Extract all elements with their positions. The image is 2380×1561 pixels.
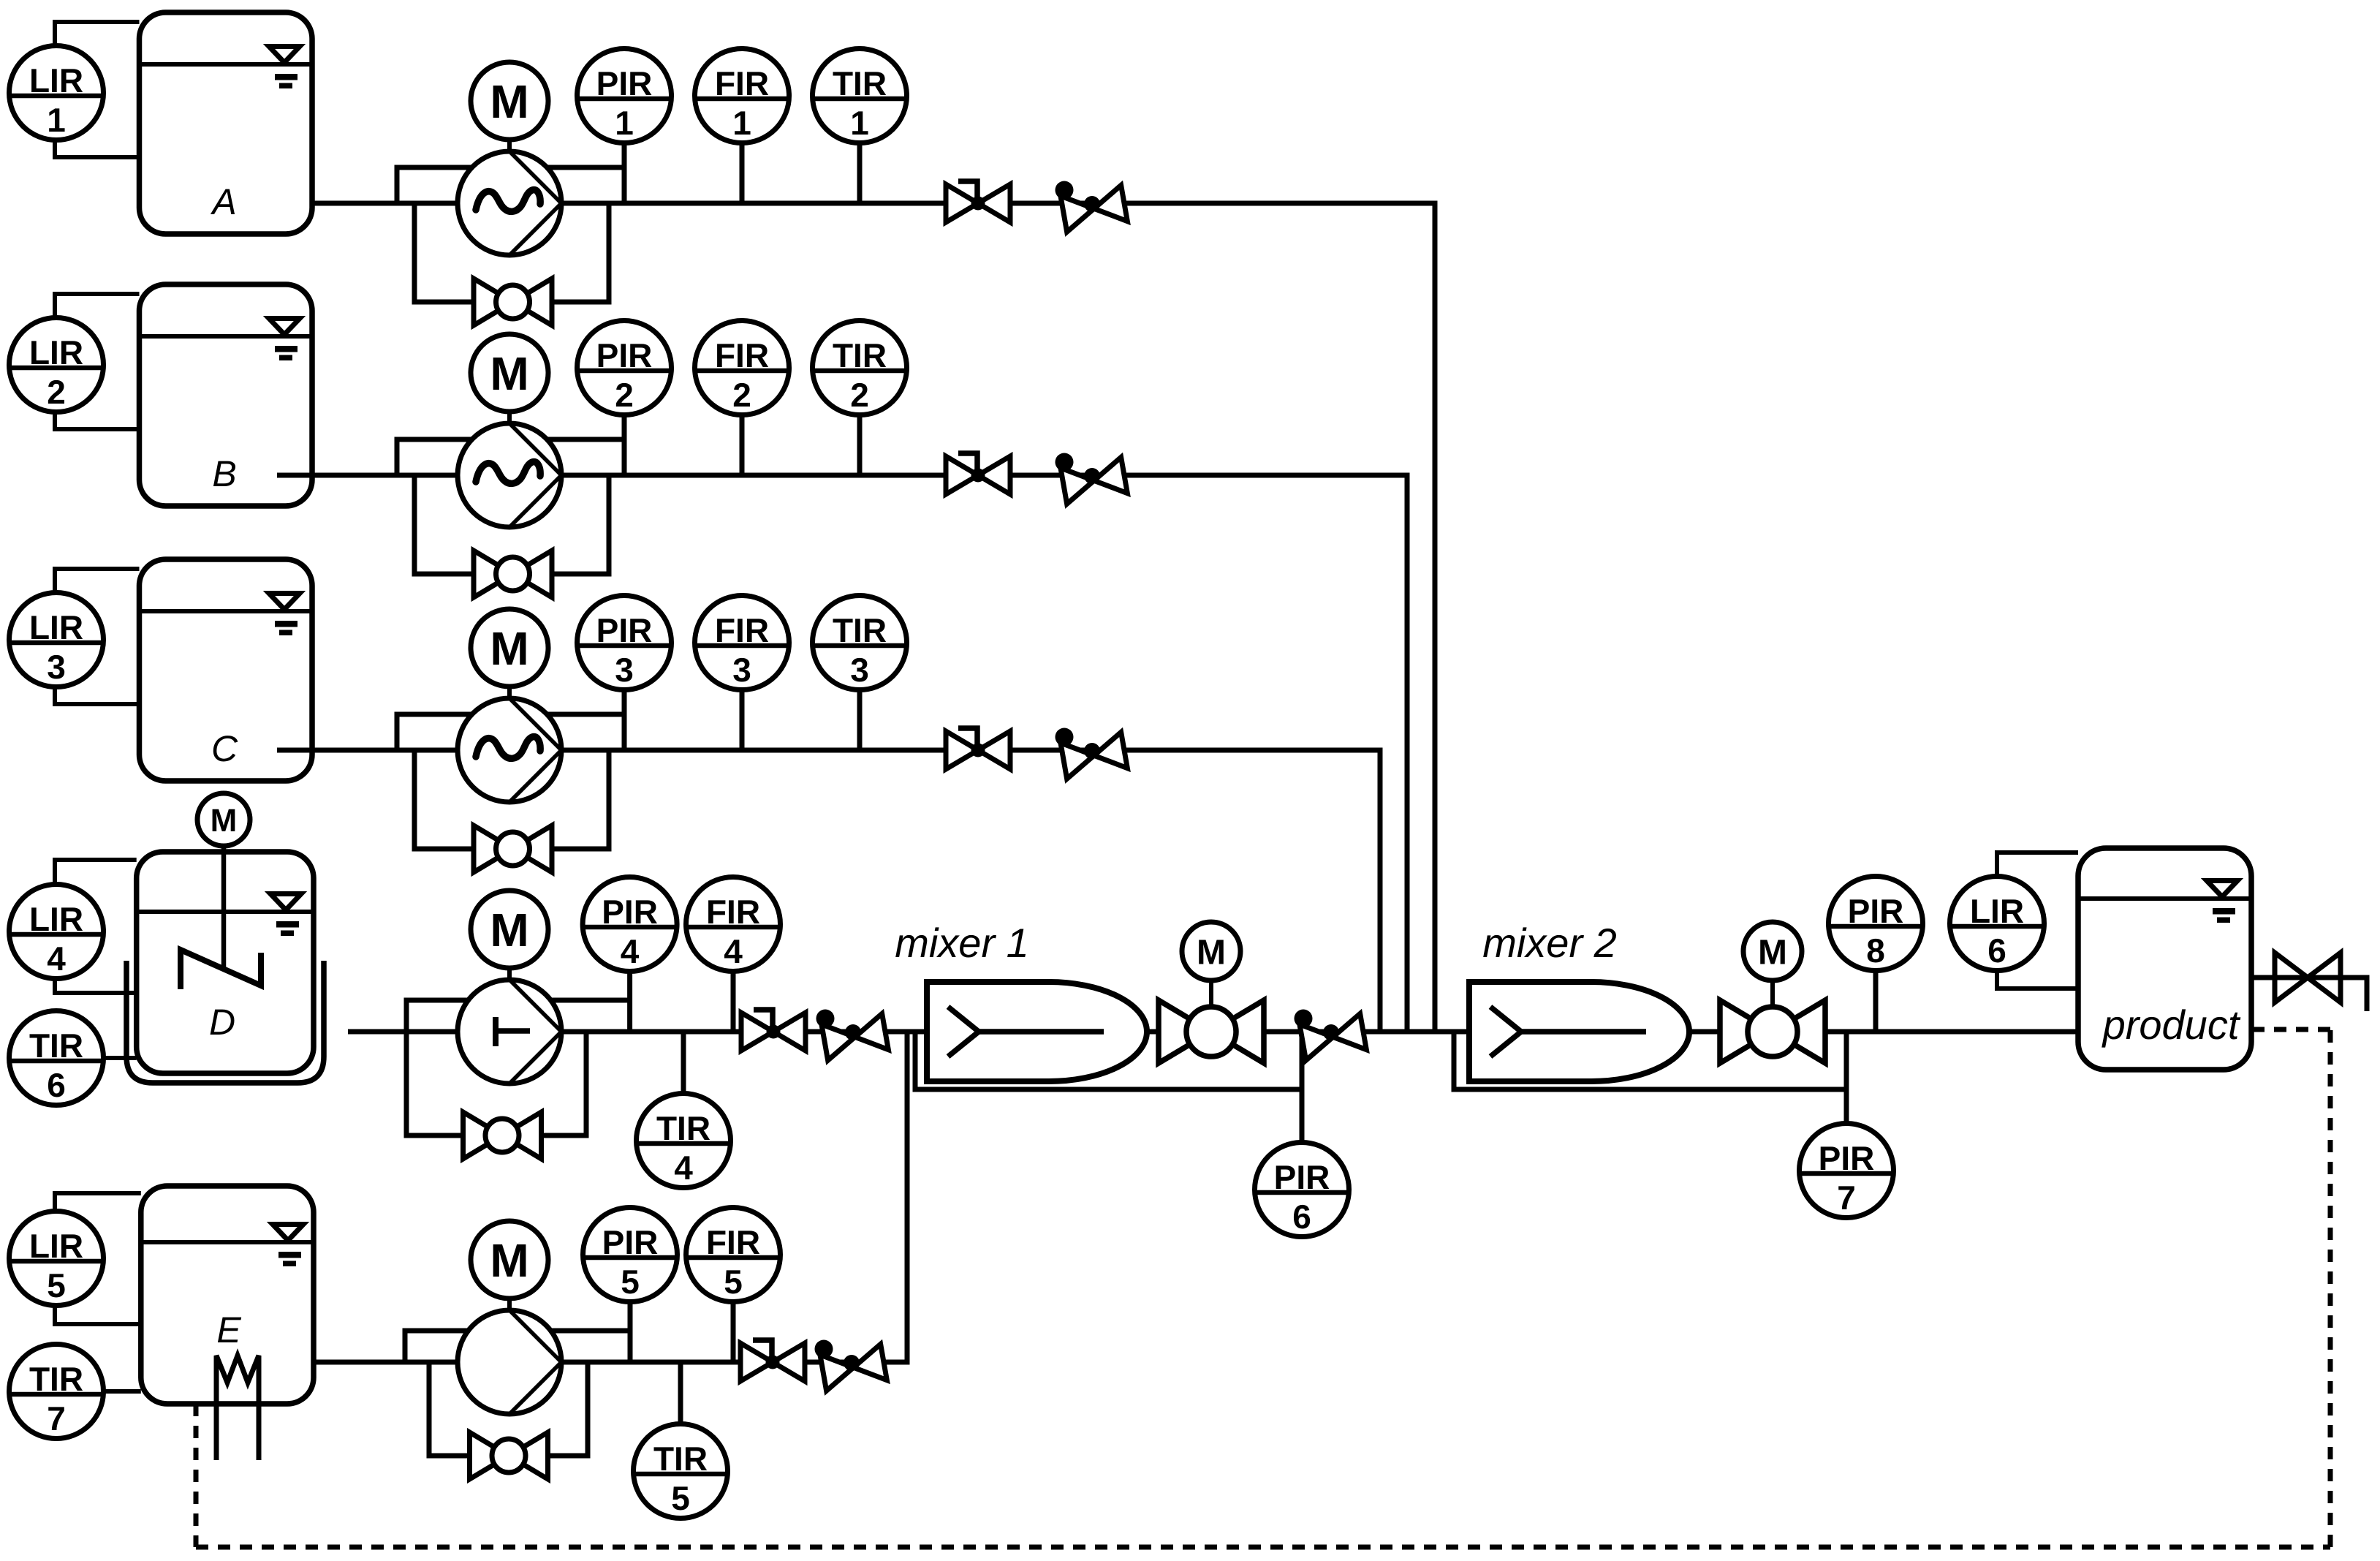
liquid level line tank B xyxy=(140,334,313,339)
motor M1 xyxy=(471,62,548,140)
instrument PIR-5 xyxy=(583,1208,678,1302)
signal line TIR-7 xyxy=(104,1389,141,1394)
svg-text:LIR: LIR xyxy=(29,608,83,646)
signal bracket LIR-5 xyxy=(55,1193,141,1324)
svg-text:TIR: TIR xyxy=(833,336,887,374)
shaft motor M1 xyxy=(507,135,512,151)
instrument PIR-8 xyxy=(1829,877,1923,971)
stirrer shaft tank D xyxy=(221,846,227,971)
motor M2 xyxy=(471,334,548,412)
instrument FIR-1 xyxy=(695,49,789,143)
instrument LIR-5 xyxy=(10,1212,104,1306)
label D xyxy=(209,1002,235,1043)
level mark product tank xyxy=(2207,881,2237,923)
svg-text:PIR: PIR xyxy=(596,64,653,102)
instrument TIR-2 xyxy=(813,321,907,415)
svg-text:5: 5 xyxy=(621,1263,640,1301)
svg-text:PIR: PIR xyxy=(1819,1139,1875,1177)
svg-text:M: M xyxy=(1197,933,1226,972)
svg-text:FIR: FIR xyxy=(715,64,769,102)
svg-text:PIR: PIR xyxy=(1274,1158,1330,1196)
svg-text:A: A xyxy=(210,181,236,222)
svg-text:M: M xyxy=(490,75,528,128)
valve V4a (hand gate valve) xyxy=(741,1010,806,1051)
shaft motor M5 xyxy=(507,1299,512,1310)
valve bypass 3 (bypass globe valve) xyxy=(474,825,552,872)
signal line TIR-6 xyxy=(104,1056,137,1060)
signal line TIR-5 xyxy=(678,1362,683,1424)
pump P5 xyxy=(458,1310,561,1414)
svg-text:2: 2 xyxy=(850,376,869,414)
valve V5b (ball-head valve) xyxy=(815,1340,887,1391)
pipe bypass lower pump 2 xyxy=(414,475,609,574)
svg-text:product: product xyxy=(2102,1002,2241,1048)
control valve MV1 xyxy=(1159,980,1264,1063)
signal bracket LIR-6 xyxy=(1997,853,2078,989)
valve bypass 1 (bypass globe valve) xyxy=(474,279,552,325)
svg-text:C: C xyxy=(211,728,238,769)
svg-text:FIR: FIR xyxy=(715,611,769,649)
signal line PIR-8 xyxy=(1873,971,1879,1032)
instrument LIR-6 xyxy=(1950,877,2044,971)
signal line PIR-4 xyxy=(627,972,632,1032)
svg-text:1: 1 xyxy=(732,104,751,142)
svg-text:6: 6 xyxy=(47,1066,66,1104)
liquid level line tank A xyxy=(140,62,313,67)
valve V5a (hand gate valve) xyxy=(740,1340,805,1381)
svg-text:4: 4 xyxy=(621,932,640,970)
instrument TIR-3 xyxy=(813,596,907,690)
svg-text:M: M xyxy=(211,803,238,839)
svg-text:TIR: TIR xyxy=(833,611,887,649)
mixer 1 body xyxy=(927,982,1147,1081)
pipe bypass lower pump 5 xyxy=(429,1362,588,1456)
svg-text:4: 4 xyxy=(47,940,66,978)
motor M-MV2 xyxy=(1743,922,1802,980)
tank C xyxy=(140,559,313,781)
pipe jacket loop mixer 2 xyxy=(1454,1032,1846,1089)
pipe bypass upper pump 1 xyxy=(397,167,624,203)
pipe bypass upper pump 5 xyxy=(405,1331,630,1362)
shaft motor M3 xyxy=(507,682,512,698)
svg-text:TIR: TIR xyxy=(656,1109,710,1147)
svg-text:1: 1 xyxy=(850,104,869,142)
pipe mixer 1 to mixer 2 to product tank xyxy=(1147,1029,2078,1035)
level mark tank A xyxy=(269,47,300,89)
mixer 1 symbol xyxy=(948,1007,1104,1057)
svg-text:TIR: TIR xyxy=(833,64,887,102)
svg-text:M: M xyxy=(1758,933,1787,972)
instrument LIR-2 xyxy=(10,318,104,412)
svg-text:PIR: PIR xyxy=(1848,892,1904,930)
pipe feed B to mixer 2 xyxy=(277,475,1407,1032)
svg-text:D: D xyxy=(209,1002,235,1043)
label mixer 2 xyxy=(1482,920,1617,966)
tank D jacket xyxy=(126,961,324,1083)
svg-text:LIR: LIR xyxy=(29,333,83,371)
svg-text:LIR: LIR xyxy=(29,1227,83,1265)
label E xyxy=(216,1309,241,1350)
instrument PIR-1 xyxy=(577,49,672,143)
instrument TIR-4 xyxy=(637,1094,731,1188)
tank B xyxy=(140,284,313,506)
level mark tank B xyxy=(269,319,300,361)
level mark tank E xyxy=(273,1225,303,1267)
instrument PIR-4 xyxy=(583,877,677,972)
valve V3a (hand gate valve) xyxy=(946,728,1010,769)
svg-text:FIR: FIR xyxy=(706,1223,760,1261)
control valve MV2 xyxy=(1720,980,1825,1063)
pipe jacket loop mixer 1 xyxy=(915,1032,1302,1089)
instrument TIR-5 xyxy=(634,1424,728,1519)
svg-text:FIR: FIR xyxy=(706,893,760,931)
instrument PIR-2 xyxy=(577,321,672,415)
instrument LIR-3 xyxy=(10,593,104,687)
svg-text:5: 5 xyxy=(671,1479,690,1517)
shaft motor M4 xyxy=(507,968,512,980)
svg-text:LIR: LIR xyxy=(1970,892,2024,930)
signal bracket LIR-3 xyxy=(55,569,140,704)
signal bracket LIR-1 xyxy=(55,22,140,157)
instrument PIR-7 xyxy=(1800,1124,1894,1218)
svg-text:5: 5 xyxy=(724,1263,743,1301)
svg-text:PIR: PIR xyxy=(602,1223,659,1261)
signal bracket LIR-2 xyxy=(55,294,140,429)
tank A xyxy=(140,12,313,234)
label mixer 1 xyxy=(895,920,1029,966)
svg-text:FIR: FIR xyxy=(715,336,769,374)
instrument FIR-4 xyxy=(686,877,781,972)
shaft motor M2 xyxy=(507,407,512,423)
svg-text:3: 3 xyxy=(615,651,634,689)
valve bypass 4 (bypass globe valve) xyxy=(463,1112,542,1159)
pump P3 xyxy=(458,698,561,802)
svg-text:E: E xyxy=(216,1309,241,1350)
pipe bypass lower pump 4 xyxy=(406,1032,586,1135)
svg-text:B: B xyxy=(212,453,236,494)
svg-text:TIR: TIR xyxy=(29,1027,83,1065)
signal line PIR-2 xyxy=(622,415,627,476)
signal line PIR-6 xyxy=(1300,1032,1305,1143)
signal line TIR-4 xyxy=(681,1032,686,1094)
mixer 2 body xyxy=(1469,982,1689,1081)
valve bypass 5 (bypass globe valve) xyxy=(470,1432,548,1479)
signal line TIR-3 xyxy=(857,690,863,751)
pipe product outlet xyxy=(2251,978,2367,1011)
svg-text:mixer 1: mixer 1 xyxy=(895,920,1029,966)
instrument FIR-5 xyxy=(686,1208,781,1302)
svg-text:PIR: PIR xyxy=(596,611,653,649)
svg-text:M: M xyxy=(490,347,528,400)
svg-text:3: 3 xyxy=(850,651,869,689)
signal line PIR-7 xyxy=(1844,1032,1849,1125)
liquid level line tank C xyxy=(140,609,313,613)
svg-text:3: 3 xyxy=(732,651,751,689)
signal line PIR-1 xyxy=(622,143,627,204)
svg-text:4: 4 xyxy=(674,1149,693,1187)
signal line FIR-2 xyxy=(740,415,745,476)
liquid level line tank E xyxy=(141,1240,314,1244)
valve V1a (hand gate valve) xyxy=(946,181,1010,222)
instrument TIR-6 xyxy=(10,1011,104,1105)
signal line PIR-3 xyxy=(622,690,627,751)
valve V7 (product outlet) xyxy=(2275,953,2341,1002)
label C xyxy=(211,728,238,769)
svg-text:1: 1 xyxy=(615,104,634,142)
svg-text:LIR: LIR xyxy=(29,900,83,938)
level mark tank D xyxy=(270,894,301,937)
label product xyxy=(2102,1002,2241,1048)
svg-text:PIR: PIR xyxy=(596,336,653,374)
label A xyxy=(210,181,236,222)
svg-text:TIR: TIR xyxy=(29,1360,83,1398)
stirrer paddle tank D xyxy=(181,950,261,989)
liquid level line tank D xyxy=(137,910,314,914)
tank E xyxy=(141,1186,314,1404)
motor M4 xyxy=(471,891,548,968)
instrument PIR-3 xyxy=(577,596,672,690)
svg-text:2: 2 xyxy=(47,373,66,411)
svg-text:5: 5 xyxy=(47,1266,66,1304)
svg-text:8: 8 xyxy=(1866,931,1885,970)
svg-text:M: M xyxy=(490,1234,528,1287)
signal line TIR-2 xyxy=(857,415,863,476)
pipe feed A to mixer 2 xyxy=(312,203,1435,1032)
level mark tank C xyxy=(269,594,300,636)
tank product xyxy=(2078,848,2251,1070)
svg-text:2: 2 xyxy=(732,376,751,414)
svg-text:6: 6 xyxy=(1987,931,2006,970)
svg-text:M: M xyxy=(490,904,528,956)
valve V2a (hand gate valve) xyxy=(946,453,1010,494)
pipe bypass upper pump 3 xyxy=(397,714,624,750)
valve V4b (ball-head valve) xyxy=(816,1010,889,1061)
signal line FIR-4 xyxy=(731,972,736,1032)
motor M-D (stirrer) xyxy=(197,793,250,846)
signal bracket LIR-4 xyxy=(55,860,137,993)
mixer 2 symbol xyxy=(1490,1007,1646,1057)
heater element tank E xyxy=(216,1356,259,1460)
pipe feed D to mixer 1 xyxy=(348,1029,927,1035)
svg-text:PIR: PIR xyxy=(602,893,658,931)
valve V1b (ball-head valve) xyxy=(1056,181,1128,233)
pump P4 xyxy=(458,980,561,1084)
instrument LIR-1 xyxy=(10,46,104,140)
signal line FIR-1 xyxy=(740,143,745,204)
pipe feed C to mixer 2 xyxy=(277,750,1380,1032)
valve V2b (ball-head valve) xyxy=(1056,453,1128,504)
pipe bypass lower pump 3 xyxy=(414,750,609,849)
pipe bypass upper pump 2 xyxy=(397,439,624,475)
svg-text:4: 4 xyxy=(724,932,743,970)
signal line TIR-1 xyxy=(857,143,863,204)
svg-text:2: 2 xyxy=(615,376,634,414)
instrument FIR-2 xyxy=(695,321,789,415)
svg-text:7: 7 xyxy=(1837,1179,1856,1217)
recycle signal line (dashed) xyxy=(196,1029,2330,1547)
signal line FIR-5 xyxy=(731,1302,736,1363)
svg-text:3: 3 xyxy=(47,648,66,686)
instrument LIR-4 xyxy=(10,885,104,979)
svg-text:M: M xyxy=(490,622,528,675)
svg-text:1: 1 xyxy=(47,101,66,139)
svg-text:7: 7 xyxy=(47,1399,66,1437)
liquid level line product tank xyxy=(2078,896,2251,901)
motor M5 xyxy=(471,1221,548,1299)
svg-text:mixer 2: mixer 2 xyxy=(1482,920,1617,966)
valve V3b (ball-head valve) xyxy=(1056,728,1128,779)
motor M3 xyxy=(471,609,548,687)
instrument PIR-6 xyxy=(1255,1143,1349,1237)
tank D xyxy=(137,852,314,1073)
svg-text:6: 6 xyxy=(1292,1198,1311,1236)
pipe bypass upper pump 4 xyxy=(406,1000,630,1032)
instrument TIR-1 xyxy=(813,49,907,143)
svg-text:LIR: LIR xyxy=(29,61,83,99)
pipe bypass lower pump 1 xyxy=(414,203,609,302)
label B xyxy=(212,453,236,494)
motor M-MV1 xyxy=(1182,922,1240,980)
pipe feed E to mixer 1 xyxy=(314,1032,907,1362)
valve V6 (ball-head valve) xyxy=(1295,1010,1367,1061)
svg-text:TIR: TIR xyxy=(653,1440,708,1478)
signal line FIR-3 xyxy=(740,690,745,751)
valve bypass 2 (bypass globe valve) xyxy=(474,551,552,597)
instrument TIR-7 xyxy=(10,1345,104,1439)
instrument FIR-3 xyxy=(695,596,789,690)
signal line PIR-5 xyxy=(628,1302,633,1363)
pump P1 xyxy=(458,151,561,255)
pump P2 xyxy=(458,423,561,527)
